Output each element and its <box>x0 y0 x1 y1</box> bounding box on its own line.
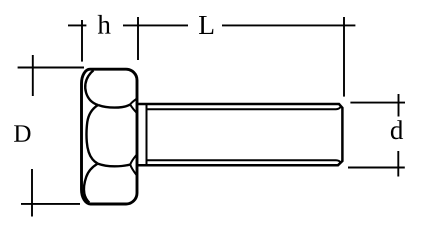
extension tick at bolt end (L) <box>343 17 345 97</box>
extension tick at head left face (h) <box>81 20 83 62</box>
label d <box>391 120 403 139</box>
d dimension top tick <box>398 94 400 117</box>
upper facet dividing line <box>98 104 130 107</box>
lower facet dividing line <box>98 164 131 167</box>
label D <box>14 125 30 141</box>
d dimension top extension line <box>350 102 405 104</box>
D dimension top extension line <box>18 67 84 69</box>
D dimension bottom extension line <box>21 203 80 205</box>
d dimension bottom tick <box>397 151 399 177</box>
right edge upper cusp arcs <box>130 99 136 113</box>
D dimension bottom tick <box>31 169 33 217</box>
dimension line h/L segment middle <box>123 24 188 26</box>
head middle facet left chamfer arc <box>87 105 98 164</box>
d dimension bottom extension line <box>348 167 405 169</box>
dimension line h/L segment right <box>222 24 355 26</box>
D dimension top tick <box>32 55 34 96</box>
thread minor-diameter bottom line <box>147 160 342 163</box>
label h <box>98 15 111 34</box>
extension tick at under-head (h/L) <box>137 17 139 60</box>
hex head outline <box>82 69 138 204</box>
thread runout vertical line <box>146 104 148 165</box>
thread minor-diameter top line <box>147 106 342 109</box>
shank outline with end chamfers <box>137 104 342 165</box>
head top facet chamfer arc <box>85 70 98 105</box>
head bottom facet chamfer arc <box>84 164 98 203</box>
label L <box>199 16 213 34</box>
right edge lower cusp arcs <box>130 155 136 175</box>
dimension line h/L segment left <box>68 24 86 26</box>
